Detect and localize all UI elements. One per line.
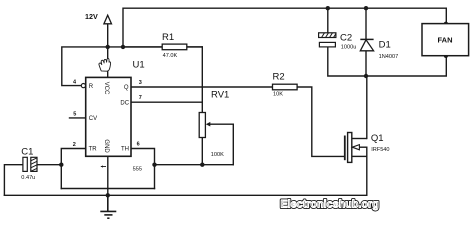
ground [100,195,116,218]
wire C1 right lead [37,164,61,166]
svg-text:Electronicshub.org: Electronicshub.org [281,198,379,210]
cursor hand icon [99,58,111,71]
wire Q1 source down [366,147,368,195]
svg-text:10K: 10K [273,92,283,98]
svg-text:12V: 12V [85,12,98,21]
svg-text:R: R [89,84,94,90]
svg-text:R2: R2 [273,72,285,83]
resistor R2 [273,72,298,98]
gnd tick mark [101,165,106,167]
FAN box [422,24,469,56]
svg-text:100K: 100K [211,152,224,158]
svg-text:IRF540: IRF540 [371,147,389,153]
svg-text:Q: Q [124,85,129,91]
channel body [348,133,352,163]
svg-text:3: 3 [139,80,142,86]
svg-text:R1: R1 [162,32,174,43]
pin 5 CV stub [69,117,86,119]
svg-text:555: 555 [133,167,142,173]
wire 12V rail y=47 left segment [62,47,203,86]
svg-text:VCC: VCC [103,82,109,95]
wire pin2 TR to C1 junction [61,149,85,189]
svg-text:TR: TR [89,147,98,153]
svg-text:Q1: Q1 [371,133,384,144]
svg-text:DC: DC [120,100,129,106]
svg-text:CV: CV [89,116,97,122]
wire bottom rail [4,194,366,196]
body arrow [352,145,359,150]
node junction dots [59,6,448,198]
wire pin7 DC [131,101,202,103]
power symbol 12V arrow [104,15,112,24]
svg-text:C2: C2 [340,33,352,44]
wire GND pin 1 [107,156,109,195]
svg-text:6: 6 [137,142,140,148]
svg-text:2: 2 [73,142,76,148]
diode D1 [360,39,398,60]
svg-text:47.0K: 47.0K [163,53,178,59]
wire 12V arrow stem [107,24,109,47]
wire R2 to Q1 gate [297,87,344,156]
op-amp U1 555 timer box [69,59,145,172]
gate bar [344,136,346,161]
transistor Q1 MOSFET IRF540 [345,133,390,163]
capacitor C1 [21,147,37,181]
wire TH to RV1 bottom [155,164,234,166]
svg-text:D1: D1 [379,40,391,51]
svg-text:U1: U1 [133,59,145,70]
svg-text:5: 5 [73,112,76,118]
wire RV1 wiper return [209,124,233,165]
wire mid rail C2 D1 FAN bottom [328,47,447,76]
svg-text:GND: GND [103,139,109,153]
svg-text:1N4007: 1N4007 [379,54,399,60]
svg-text:FAN: FAN [438,35,453,44]
svg-text:TH: TH [121,147,129,153]
capacitor C2 [319,33,357,51]
pin 4 reset bubble [81,84,85,88]
svg-text:7: 7 [139,95,142,101]
svg-text:C1: C1 [21,147,33,158]
potentiometer RV1 [199,90,229,159]
wire TR-TH link [61,188,154,190]
drain lead [352,138,367,140]
wire RV1 bottom lead [201,138,203,165]
wire D1 top lead [365,8,367,39]
wire R1 right to RV1 top [201,47,203,113]
svg-text:1000u: 1000u [341,44,357,50]
wire C1 left lead to bottom rail [4,165,23,196]
svg-text:RV1: RV1 [211,90,229,101]
resistor R1 [123,32,202,59]
wire D1 bottom lead [365,51,367,76]
svg-text:0.47u: 0.47u [21,175,35,181]
wire C2 top lead [327,8,329,33]
wire pin6 TH down [131,149,155,189]
wire VCC pin 8 [107,47,109,78]
watermark Electronicshub.org [281,198,379,210]
wire pin3 Q to R2 [131,86,273,88]
wire top rail 12V to FAN [123,8,446,47]
wire Q1 drain up [366,76,368,139]
source lead [352,155,367,157]
